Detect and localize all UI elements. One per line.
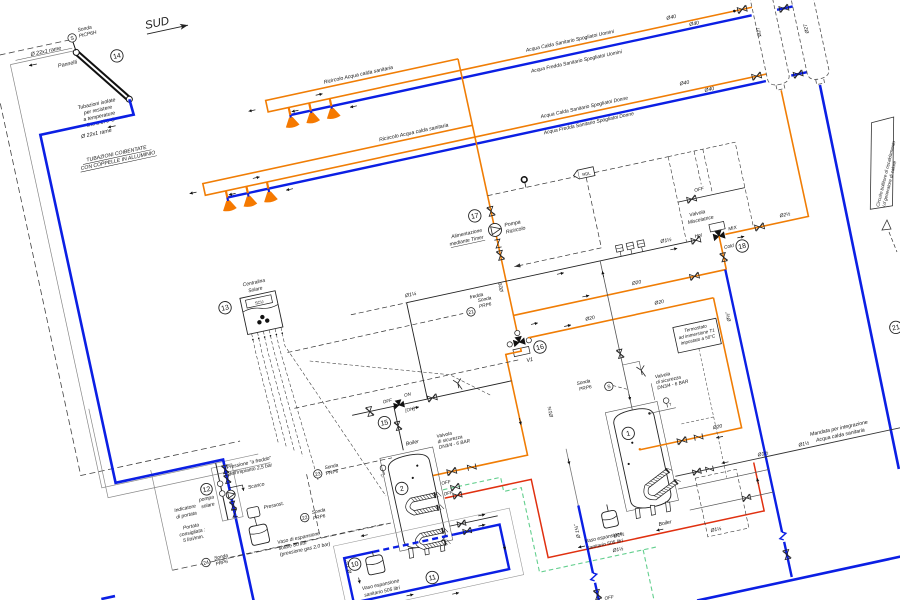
- collector panel bar: [76, 44, 129, 109]
- blue cold water distribution rectangle: [344, 525, 509, 600]
- gruppo pompa solare 12: [211, 464, 243, 521]
- shower manifold rect uomini (ricircolo top / calda bottom): [266, 59, 461, 112]
- valves into capsules: [737, 5, 747, 14]
- cold stub below mix: [719, 236, 726, 269]
- vaso espansione sanitario (right drum): [607, 504, 608, 511]
- boiler 1 tank: [605, 402, 678, 512]
- small blue stub bottom-left: [101, 596, 115, 599]
- showers uomini: [289, 107, 291, 117]
- red integration line: [445, 433, 764, 577]
- calda uomini line to riser capsule 1: [460, 7, 751, 70]
- riser capsule 1 (Ø27): [721, 0, 792, 92]
- thermometer on dashed line: [520, 175, 529, 184]
- green dashed recirc line: [443, 448, 669, 600]
- ricircolo riser with pompa ricircolo 17: [458, 59, 517, 334]
- mandata per integrazione line: [675, 413, 900, 477]
- calda donne line: [475, 74, 766, 137]
- dashed box around red riser: [695, 469, 749, 537]
- orange drop from V1 to boiler2 coil: [395, 348, 547, 495]
- circuito bollitore label box (screen coords): [870, 117, 897, 252]
- controller wires: [252, 313, 386, 516]
- valve V1 three-way motorized (16): [513, 336, 526, 347]
- blue drop line center: [566, 449, 578, 506]
- cold water feed line: [407, 240, 697, 303]
- sonda PtCP6H circle: [67, 33, 77, 43]
- boiler1 top sensor + thermometer: [648, 412, 651, 415]
- roof zone boundary: [10, 29, 288, 581]
- circle 14: [110, 49, 125, 64]
- RDL box: [577, 167, 595, 179]
- blue solar pipe from panel: [37, 96, 254, 600]
- line to boilers with 3way valve 15: [352, 381, 511, 415]
- orange integration into boiler1: [612, 298, 742, 450]
- showers donne: [226, 191, 228, 201]
- orange line y=328.5 riser to cold junction: [513, 269, 726, 315]
- sonda PRP6 mid1: [313, 469, 323, 479]
- svg-text:21: 21: [891, 324, 900, 333]
- vertical feed x=407: [407, 303, 428, 399]
- riser capsule 2 (Ø27): [760, 0, 832, 86]
- dashed control line to RDL: [152, 157, 732, 561]
- termostato note box: [673, 318, 722, 353]
- boiler2 upper coil: [406, 491, 444, 517]
- stub down to boiler2: [394, 406, 404, 450]
- dashed control box around mix: [668, 142, 753, 242]
- thin line with two valves into boiler2 right: [450, 516, 498, 526]
- scarico drain: [229, 485, 243, 494]
- sonda T1 boiler1: [604, 381, 614, 391]
- shower manifold rect donne: [203, 125, 475, 195]
- orange into boiler2 coil top: [436, 474, 532, 495]
- sonda PRP6 mid2: [300, 513, 310, 523]
- orange line y=353.5 V1 to tank1 riser: [528, 298, 713, 338]
- sonda PRP6 riser: [466, 307, 476, 317]
- sheet frame dashed border: [0, 0, 391, 585]
- boiler2 lower coil: [416, 527, 451, 551]
- boiler1 coil: [641, 466, 681, 503]
- thermometer boiler2: [380, 465, 387, 472]
- small stubs below tank1 to risers: [678, 470, 768, 490]
- blue riser from capsule2 down right side: [816, 85, 900, 469]
- safety valve boiler1: [636, 365, 646, 377]
- pompa ricircolo: [487, 222, 502, 237]
- blue cold riser down from junction: [725, 270, 791, 577]
- cold feed stub to boiler1 top: [600, 261, 632, 410]
- fredda donne blue line: [227, 72, 807, 197]
- sonda PRP6 left: [201, 558, 211, 568]
- vaso espansione sanitario 10: [372, 552, 375, 556]
- fredda uomini blue line: [290, 6, 792, 115]
- thin boundary rect around sanitary zone: [333, 508, 523, 600]
- bottom blue main line: [697, 537, 900, 600]
- orange return riser x=818 down to mixing: [698, 90, 808, 234]
- vaso espansione solare: [248, 523, 270, 545]
- valvola miscelatrice MIX: [713, 230, 726, 241]
- boiler 2 tank: [380, 447, 453, 551]
- pressostato: [247, 506, 261, 518]
